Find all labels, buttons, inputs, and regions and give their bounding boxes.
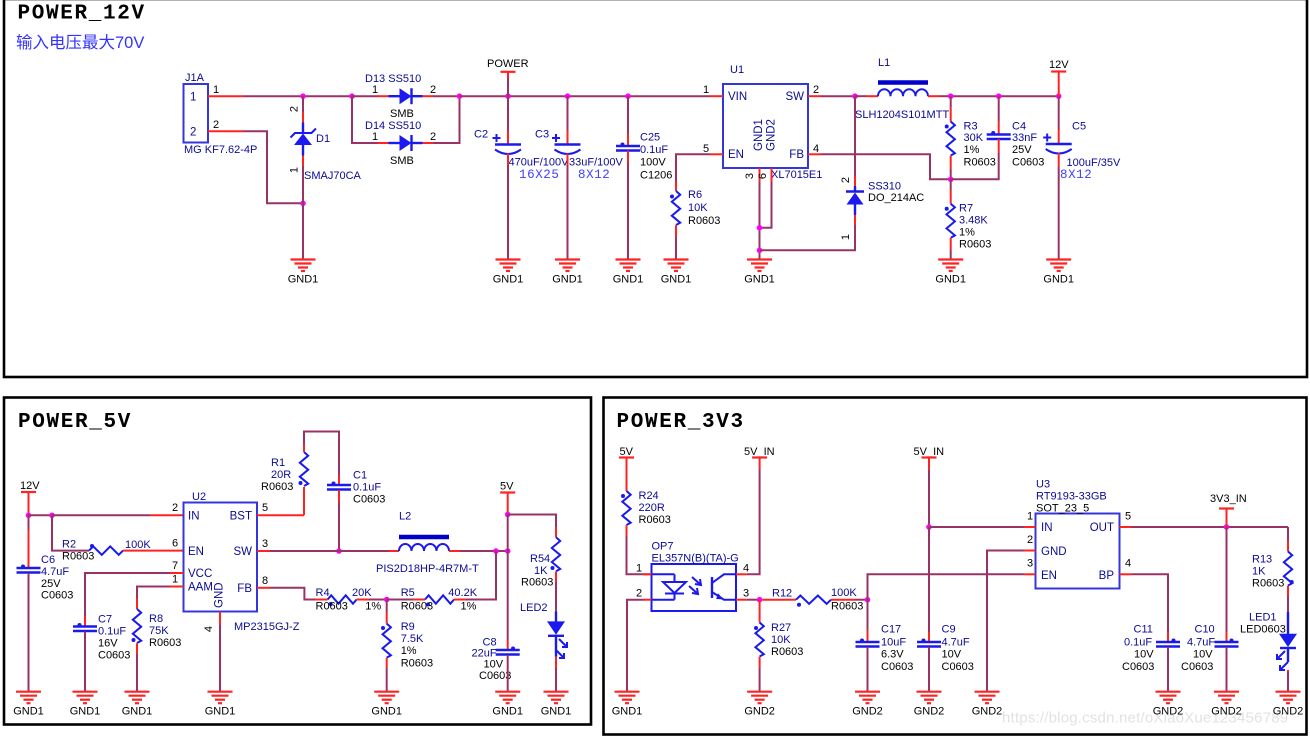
svg-text:GND2: GND2 bbox=[744, 706, 775, 718]
svg-text:5V_IN: 5V_IN bbox=[914, 446, 945, 458]
svg-text:POWER_12V: POWER_12V bbox=[18, 3, 146, 26]
wire 12V rail to U2 IN bbox=[52, 514, 150, 516]
resistor R6 10K bbox=[670, 191, 680, 225]
svg-text:R0603: R0603 bbox=[959, 239, 991, 251]
svg-text:1: 1 bbox=[703, 84, 709, 96]
svg-text:1: 1 bbox=[372, 131, 378, 143]
wire to R2 bbox=[52, 515, 89, 550]
svg-text:1: 1 bbox=[372, 84, 378, 96]
svg-text:IN: IN bbox=[188, 511, 200, 523]
pin stub C17 top bbox=[867, 630, 869, 642]
svg-text:R0603: R0603 bbox=[1252, 578, 1284, 590]
svg-text:0.1uF: 0.1uF bbox=[640, 144, 668, 156]
svg-text:GND1: GND1 bbox=[1043, 274, 1074, 286]
svg-text:470uF/100V: 470uF/100V bbox=[509, 157, 570, 169]
wire junction to R7 bbox=[950, 179, 952, 190]
junction R12/C17/EN bbox=[865, 597, 871, 603]
ground GND1 under LED2 bbox=[541, 692, 572, 718]
capacitor C1 0.1uF bbox=[327, 482, 351, 490]
resistor R7 3.48K bbox=[945, 204, 955, 238]
junction C4 top bbox=[996, 93, 1002, 99]
svg-text:R0603: R0603 bbox=[771, 646, 803, 658]
capacitor C11 0.1uF bbox=[1156, 639, 1180, 647]
junction POWER/C2 bbox=[505, 93, 511, 99]
svg-text:R2: R2 bbox=[62, 539, 76, 551]
svg-text:EL357N(B)(TA)-G: EL357N(B)(TA)-G bbox=[652, 553, 739, 565]
resistor R13 1K bbox=[1284, 552, 1294, 586]
sheet frame POWER_5V bbox=[4, 398, 591, 725]
svg-text:20R: 20R bbox=[271, 469, 291, 481]
svg-text:1: 1 bbox=[1027, 511, 1033, 523]
wire divider to C4 bottom bbox=[951, 153, 999, 179]
svg-text:C4: C4 bbox=[1012, 121, 1026, 133]
pin stub R6 top bbox=[675, 181, 677, 191]
svg-text:10V: 10V bbox=[1193, 649, 1213, 661]
wire 5V down to node bbox=[507, 515, 509, 552]
wire C17 to ground bbox=[867, 647, 869, 692]
resistor R1 20R bbox=[299, 452, 309, 486]
svg-text:VCC: VCC bbox=[188, 568, 212, 580]
svg-text:R8: R8 bbox=[149, 613, 163, 625]
svg-text:4.7uF: 4.7uF bbox=[41, 566, 69, 578]
svg-text:2: 2 bbox=[430, 131, 436, 143]
svg-text:GND1: GND1 bbox=[492, 706, 523, 718]
pin stub R5 right bbox=[454, 599, 466, 601]
svg-text:10V: 10V bbox=[484, 659, 504, 671]
svg-text:1: 1 bbox=[289, 167, 301, 173]
svg-text:GND1: GND1 bbox=[613, 274, 644, 286]
svg-text:3V3_IN: 3V3_IN bbox=[1210, 493, 1247, 505]
svg-text:C1: C1 bbox=[353, 470, 367, 482]
svg-text:30K: 30K bbox=[964, 132, 984, 144]
svg-text:4: 4 bbox=[1125, 558, 1131, 570]
wire FB to R4 bbox=[270, 588, 315, 600]
svg-text:2: 2 bbox=[289, 106, 301, 112]
svg-text:R12: R12 bbox=[772, 588, 792, 600]
svg-text:6.3V: 6.3V bbox=[881, 649, 904, 661]
svg-text:SOT_23_5: SOT_23_5 bbox=[1036, 503, 1089, 515]
junction R3 top bbox=[948, 93, 954, 99]
wire SS310 anode to GND net bbox=[760, 225, 856, 250]
svg-text:2: 2 bbox=[430, 84, 436, 96]
wire R6 to ground bbox=[675, 225, 677, 237]
pin stub R12 left bbox=[762, 599, 785, 601]
svg-text:25V: 25V bbox=[1012, 144, 1032, 156]
ground GND1 under C3 bbox=[552, 260, 583, 286]
wire 5V_IN to OP7 pin4 bbox=[747, 470, 760, 574]
pin stub C8 top bbox=[507, 640, 509, 650]
svg-text:GND1: GND1 bbox=[541, 706, 572, 718]
svg-text:C8: C8 bbox=[483, 636, 497, 648]
svg-text:1: 1 bbox=[840, 234, 852, 240]
svg-text:C0603: C0603 bbox=[1181, 661, 1213, 673]
pin stub R54 top bbox=[555, 527, 557, 537]
svg-text:R0603: R0603 bbox=[401, 658, 433, 670]
svg-text:1: 1 bbox=[190, 92, 196, 104]
ground GND1 under U1 bbox=[744, 260, 775, 286]
wire to GND1 under D1 bbox=[302, 203, 304, 259]
junction C25 bbox=[625, 93, 631, 99]
svg-text:OUT: OUT bbox=[1090, 522, 1114, 534]
pin stub OP7 pin3 bbox=[736, 599, 747, 601]
wire SW to L2 bbox=[339, 550, 389, 552]
svg-text:C11: C11 bbox=[1134, 624, 1153, 636]
wire C8 to ground bbox=[507, 655, 509, 692]
pin stub R8 top bbox=[136, 598, 138, 609]
wire 5V_IN down bbox=[928, 470, 930, 527]
svg-text:GND2: GND2 bbox=[852, 706, 883, 718]
wire AAM to R8 bbox=[137, 587, 170, 599]
diode D14 SS510 bbox=[378, 135, 434, 151]
junction 5V/R54 branch bbox=[505, 512, 511, 518]
wire 5V to R54 bbox=[508, 515, 556, 528]
pin stub R5 left bbox=[413, 599, 425, 601]
svg-text:U3: U3 bbox=[1036, 479, 1050, 491]
wire to R12 bbox=[785, 599, 796, 601]
wire L2 to 5V node bbox=[460, 550, 508, 552]
svg-text:LED0603: LED0603 bbox=[1240, 624, 1286, 636]
svg-text:1%: 1% bbox=[461, 601, 477, 613]
power port 5V output bbox=[500, 481, 515, 515]
ground GND2 under C17 bbox=[852, 692, 883, 718]
svg-text:R0603: R0603 bbox=[831, 601, 863, 613]
svg-text:XL7015E1: XL7015E1 bbox=[771, 169, 822, 181]
svg-text:C0603: C0603 bbox=[479, 670, 511, 682]
svg-text:C0603: C0603 bbox=[942, 661, 974, 673]
wire C5 to ground bbox=[1058, 153, 1060, 167]
svg-text:C0603: C0603 bbox=[353, 494, 385, 506]
connector J1A bbox=[184, 72, 258, 156]
svg-text:GND1: GND1 bbox=[205, 706, 236, 718]
svg-text:EN: EN bbox=[188, 546, 204, 558]
svg-text:SMAJ70CA: SMAJ70CA bbox=[304, 170, 362, 182]
svg-text:GND1: GND1 bbox=[744, 274, 775, 286]
svg-text:C1206: C1206 bbox=[640, 170, 672, 182]
svg-text:10V: 10V bbox=[942, 649, 962, 661]
power port POWER bbox=[487, 58, 529, 72]
svg-text:1%: 1% bbox=[964, 144, 980, 156]
svg-text:1: 1 bbox=[636, 563, 642, 575]
svg-text:R5: R5 bbox=[401, 587, 415, 599]
diode D13 SS510 bbox=[378, 88, 434, 104]
wire EN to R6 bbox=[676, 154, 710, 181]
svg-text:6: 6 bbox=[757, 173, 769, 179]
svg-text:GND2: GND2 bbox=[1211, 706, 1242, 718]
svg-text:2: 2 bbox=[636, 588, 642, 600]
svg-text:4: 4 bbox=[203, 626, 215, 632]
svg-text:25V: 25V bbox=[41, 578, 61, 590]
wire junction to C17 bbox=[867, 600, 869, 630]
wire R24 to OP7 pin1 bbox=[626, 525, 628, 536]
wire junction to U3 EN bbox=[868, 574, 1024, 599]
svg-text:U2: U2 bbox=[192, 491, 206, 503]
wire 12V rail a bbox=[29, 514, 53, 516]
svg-text:2: 2 bbox=[190, 127, 196, 139]
wire R4 to junction bbox=[369, 599, 387, 601]
svg-text:8: 8 bbox=[262, 575, 268, 587]
TVS diode D1 SMAJ70CA bbox=[291, 96, 317, 203]
capacitor C7 0.1uF bbox=[73, 623, 97, 631]
svg-text:R54: R54 bbox=[530, 553, 550, 565]
svg-text:10uF: 10uF bbox=[881, 637, 906, 649]
sheet frame POWER_3V3 bbox=[604, 398, 1307, 735]
ground GND1 under R7 bbox=[935, 260, 966, 286]
power port 12V bbox=[1049, 59, 1069, 96]
svg-text:POWER: POWER bbox=[487, 58, 529, 70]
ground GND1 under C6 bbox=[13, 692, 44, 718]
svg-text:2: 2 bbox=[813, 84, 819, 96]
svg-text:R0603: R0603 bbox=[401, 601, 433, 613]
svg-text:C2: C2 bbox=[474, 129, 488, 141]
wire 3V3 rail to R13 bbox=[1287, 527, 1289, 541]
wire rail to C4 bbox=[998, 96, 1000, 121]
svg-text:5: 5 bbox=[262, 502, 268, 514]
svg-text:C5: C5 bbox=[1072, 121, 1086, 133]
svg-text:R0603: R0603 bbox=[149, 637, 181, 649]
svg-text:3: 3 bbox=[1027, 558, 1033, 570]
wire R13 to LED1 bbox=[1287, 586, 1289, 596]
wire R5 to 5V node bbox=[466, 551, 496, 600]
svg-text:33uF/100V: 33uF/100V bbox=[569, 157, 623, 169]
wire J1A pin1 to input rail bbox=[244, 95, 353, 97]
svg-text:7.5K: 7.5K bbox=[401, 633, 424, 645]
sheet frame POWER_12V bbox=[4, 0, 1307, 377]
junction D13/D14 join bbox=[457, 93, 463, 99]
wire output rail 12V bbox=[951, 95, 1059, 97]
svg-text:GND: GND bbox=[214, 582, 226, 608]
wire 12V to C6 bbox=[28, 515, 30, 530]
svg-text:5: 5 bbox=[703, 143, 709, 155]
pin stub R27 top bbox=[759, 600, 761, 623]
LED LED2 bbox=[547, 612, 567, 659]
svg-text:R0603: R0603 bbox=[688, 215, 720, 227]
svg-text:3.48K: 3.48K bbox=[959, 215, 988, 227]
capacitor C6 4.7uF bbox=[17, 565, 41, 573]
wire C7 to ground bbox=[84, 632, 86, 692]
svg-text:20K: 20K bbox=[352, 587, 372, 599]
svg-text:OP7: OP7 bbox=[652, 541, 674, 553]
resistor R24 220R bbox=[621, 491, 631, 525]
svg-text:8X12: 8X12 bbox=[1060, 168, 1092, 182]
wire VCC to C7 bbox=[85, 573, 170, 616]
svg-text:AAM: AAM bbox=[188, 582, 213, 594]
svg-text:GND2: GND2 bbox=[972, 706, 1003, 718]
svg-text:R27: R27 bbox=[771, 622, 791, 634]
wire rail to C25 bbox=[627, 96, 629, 134]
svg-text:GND1: GND1 bbox=[371, 706, 402, 718]
svg-text:GND2: GND2 bbox=[914, 706, 945, 718]
resistor R3 30K bbox=[945, 122, 955, 156]
svg-text:10V: 10V bbox=[1134, 649, 1154, 661]
svg-text:1K: 1K bbox=[534, 565, 548, 577]
power port 5V bbox=[619, 446, 634, 491]
wire to D13 anode bbox=[352, 95, 378, 97]
svg-text:D1: D1 bbox=[316, 133, 330, 145]
resistor R27 10K bbox=[754, 623, 764, 657]
wire R3 bottom bbox=[950, 156, 952, 170]
svg-text:C9: C9 bbox=[942, 624, 956, 636]
wire R7 to ground bbox=[950, 238, 952, 250]
junction FB divider bbox=[948, 177, 954, 183]
pin stub R4 right bbox=[357, 599, 369, 601]
svg-text:0.1uF: 0.1uF bbox=[1124, 637, 1152, 649]
regulator U3 RT9193-33GB bbox=[1024, 479, 1132, 589]
svg-text:16V: 16V bbox=[98, 638, 118, 650]
svg-text:SW: SW bbox=[233, 546, 252, 558]
power port 3V3_IN bbox=[1210, 493, 1247, 527]
pin stub C7 top bbox=[84, 616, 86, 626]
junction pins 3/6 bbox=[757, 225, 763, 231]
input rail to U1 VIN bbox=[460, 95, 711, 97]
svg-text:100K: 100K bbox=[831, 587, 857, 599]
LED LED1 bbox=[1277, 612, 1297, 670]
svg-text:C10: C10 bbox=[1195, 624, 1215, 636]
wire POWER stub bbox=[507, 72, 509, 78]
svg-text:J1A: J1A bbox=[185, 72, 205, 84]
svg-text:R4: R4 bbox=[316, 587, 330, 599]
svg-text:GND1: GND1 bbox=[661, 274, 692, 286]
wire C10 to ground bbox=[1226, 647, 1228, 692]
capacitor C2 470uF/100V bbox=[493, 134, 522, 154]
junction C5/12V bbox=[1056, 93, 1062, 99]
svg-text:R0603: R0603 bbox=[964, 157, 996, 169]
svg-text:0.1uF: 0.1uF bbox=[353, 482, 381, 494]
svg-text:16X25: 16X25 bbox=[519, 168, 560, 182]
ground GND1 under D1 bbox=[288, 260, 319, 286]
svg-text:https://blog.csdn.net/oXiaoXue: https://blog.csdn.net/oXiaoXue123456789 bbox=[1002, 710, 1288, 727]
diode SS310 DO_214AC bbox=[846, 176, 864, 225]
wire C2 to ground bbox=[507, 154, 509, 166]
wire junction to R9 bbox=[386, 600, 388, 613]
svg-text:SMB: SMB bbox=[390, 155, 414, 167]
svg-text:GND2: GND2 bbox=[766, 119, 778, 151]
svg-text:4.7uF: 4.7uF bbox=[942, 637, 970, 649]
capacitor C25 0.1uF bbox=[616, 143, 640, 151]
svg-text:2: 2 bbox=[1027, 534, 1033, 546]
svg-text:5V: 5V bbox=[620, 446, 634, 458]
wire J1A pin2 to GND node bbox=[244, 131, 304, 203]
svg-text:R13: R13 bbox=[1252, 554, 1272, 566]
wire C1 to SW node bbox=[338, 490, 340, 503]
svg-text:GND2: GND2 bbox=[1153, 706, 1184, 718]
wire C25 to ground bbox=[627, 151, 629, 164]
svg-text:L2: L2 bbox=[399, 511, 411, 523]
pin stub OP7 pin2 bbox=[644, 599, 652, 601]
svg-text:SS310: SS310 bbox=[868, 181, 901, 193]
wire OP7 pin2 to ground bbox=[627, 600, 644, 692]
capacitor C3 33uF/100V bbox=[552, 134, 581, 154]
inductor L2 PIS2D18HP-4R7M-T bbox=[389, 537, 460, 551]
wire D13 cathode to rail bbox=[433, 95, 460, 97]
svg-text:GND1: GND1 bbox=[935, 274, 966, 286]
svg-text:1K: 1K bbox=[1252, 566, 1266, 578]
ground GND1 under C25 bbox=[613, 260, 644, 286]
resistor R12 100K bbox=[796, 596, 831, 607]
svg-text:FB: FB bbox=[789, 149, 804, 161]
svg-text:R0603: R0603 bbox=[316, 601, 348, 613]
svg-text:2: 2 bbox=[840, 177, 852, 183]
wire R1 top loop to C1 bbox=[303, 444, 305, 452]
ground GND2 under C9 bbox=[914, 692, 945, 718]
capacitor C10 4.7uF bbox=[1215, 639, 1239, 647]
power port 5V_IN left bbox=[744, 446, 775, 470]
svg-text:1%: 1% bbox=[365, 601, 381, 613]
svg-text:GND1: GND1 bbox=[70, 706, 101, 718]
svg-text:C25: C25 bbox=[640, 132, 660, 144]
svg-text:MP2315GJ-Z: MP2315GJ-Z bbox=[234, 621, 300, 633]
svg-text:BP: BP bbox=[1099, 570, 1115, 582]
resistor R5 40.2K bbox=[425, 595, 454, 606]
svg-text:7: 7 bbox=[172, 560, 178, 572]
resistor R9 7.5K bbox=[381, 624, 391, 658]
wire to U3 IN bbox=[929, 526, 1024, 528]
power port 12V input bbox=[20, 480, 40, 515]
svg-text:DO_214AC: DO_214AC bbox=[868, 192, 924, 204]
wire C11 to ground bbox=[1167, 647, 1169, 692]
ground GND2 under C11 bbox=[1153, 692, 1184, 718]
svg-text:输入电压最大70V: 输入电压最大70V bbox=[16, 33, 144, 52]
svg-text:6: 6 bbox=[172, 538, 178, 550]
wire LED2 to ground bbox=[555, 657, 557, 668]
svg-text:SLH1204S101MTT: SLH1204S101MTT bbox=[855, 109, 949, 121]
junction 5V node bbox=[505, 548, 511, 554]
svg-text:R0603: R0603 bbox=[261, 481, 293, 493]
svg-text:40.2K: 40.2K bbox=[448, 587, 477, 599]
resistor R4 20K bbox=[328, 595, 357, 606]
svg-text:C0603: C0603 bbox=[881, 661, 913, 673]
svg-text:GND1: GND1 bbox=[122, 706, 153, 718]
svg-text:R0603: R0603 bbox=[521, 577, 553, 589]
ground GND2 under U3 bbox=[972, 692, 1003, 718]
svg-text:LED2: LED2 bbox=[520, 602, 548, 614]
junction pin3/R27/R12 bbox=[757, 597, 763, 603]
pin stub R1 bottom bbox=[303, 487, 305, 515]
svg-text:5V: 5V bbox=[500, 481, 514, 493]
wire SW from U2 bbox=[270, 550, 339, 552]
junction C1/SW bbox=[336, 548, 342, 554]
pin stub OP7 pin1 bbox=[644, 573, 652, 575]
wire R2 to EN bbox=[123, 550, 184, 552]
wire rail to C3 bbox=[567, 96, 569, 130]
svg-text:R0603: R0603 bbox=[639, 514, 671, 526]
svg-text:4: 4 bbox=[743, 563, 749, 575]
svg-text:POWER_5V: POWER_5V bbox=[18, 411, 132, 434]
optocoupler OP7 EL357N(B)(TA)-G bbox=[652, 541, 739, 612]
wire U2 GND to ground bbox=[219, 625, 221, 692]
svg-text:3: 3 bbox=[262, 538, 268, 550]
svg-text:1: 1 bbox=[172, 574, 178, 586]
wire POWER to rail bbox=[507, 78, 509, 96]
pin stub R12 right bbox=[831, 599, 855, 601]
wire C3 to ground bbox=[567, 154, 569, 166]
svg-text:R6: R6 bbox=[688, 189, 702, 201]
svg-text:1%: 1% bbox=[401, 645, 417, 657]
wire junction to R5 bbox=[387, 599, 413, 601]
svg-text:C7: C7 bbox=[98, 614, 112, 626]
svg-text:2: 2 bbox=[172, 502, 178, 514]
pin stub C10 top bbox=[1226, 632, 1228, 642]
svg-text:GND: GND bbox=[1041, 546, 1067, 558]
svg-text:SW: SW bbox=[785, 91, 804, 103]
wire rail to C5 bbox=[1058, 96, 1060, 129]
wire U3 OUT to 3V3 rail bbox=[1132, 526, 1289, 528]
junction node D1 top bbox=[300, 93, 306, 99]
inductor L1 SLH1204S101MTT bbox=[855, 83, 951, 97]
svg-text:R9: R9 bbox=[401, 621, 415, 633]
svg-text:IN: IN bbox=[1041, 522, 1053, 534]
junction feedback tap bbox=[493, 548, 499, 554]
svg-text:10K: 10K bbox=[771, 634, 791, 646]
